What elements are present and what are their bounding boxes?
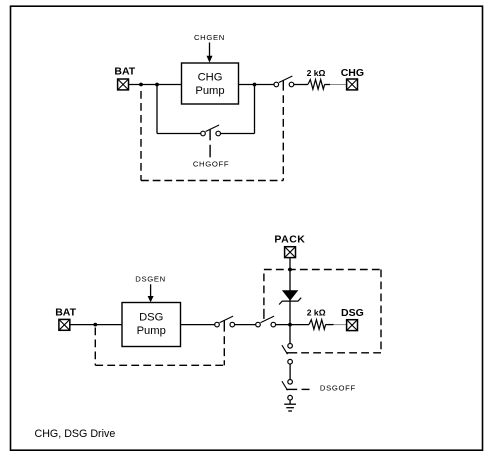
dashed IC boundary (DSG pump box) bottom edge xyxy=(95,364,224,366)
net DSGOFF label xyxy=(320,384,356,393)
dashed IC boundary (DSG pump box) left edge xyxy=(94,328,96,366)
dashed IC boundary (top circuit) right edge xyxy=(282,95,284,180)
switch S3 (DSG pump output) xyxy=(215,316,235,332)
wire DSG Pump output xyxy=(181,324,215,326)
svg-text:DSG: DSG xyxy=(139,311,163,323)
wire S1 to R1 xyxy=(294,84,308,86)
wire S5 to S6 xyxy=(289,364,291,380)
net CHGOFF label xyxy=(193,159,229,168)
svg-text:Pump: Pump xyxy=(137,325,166,337)
junction dot (BAT / dashed boundary) xyxy=(139,83,143,87)
svg-text:PACK: PACK xyxy=(274,234,305,246)
dashed IC boundary (top circuit) bottom edge xyxy=(141,180,283,182)
switch S1 (CHG output) xyxy=(274,76,294,91)
CHGOFF control dash xyxy=(209,145,211,158)
svg-text:CHG: CHG xyxy=(198,71,223,83)
wire R1 to CHG pin xyxy=(325,84,347,86)
svg-text:CHGOFF: CHGOFF xyxy=(193,159,229,168)
caption CHG, DSG Drive xyxy=(35,428,116,440)
CHGEN input arrow xyxy=(207,43,213,63)
net CHGEN label xyxy=(194,33,225,42)
pin BAT (bottom circuit) xyxy=(55,307,76,331)
wire BAT to DSG Pump xyxy=(70,324,122,326)
wire BAT to CHG Pump xyxy=(129,84,182,86)
CHG Pump block U1 xyxy=(182,63,239,104)
ground xyxy=(284,404,296,411)
wire CHGOFF loop left drop xyxy=(156,85,158,134)
svg-text:2 kΩ: 2 kΩ xyxy=(307,68,326,78)
svg-text:Pump: Pump xyxy=(195,85,224,97)
wire rail down to S5 xyxy=(289,325,291,344)
dashed IC boundary (PACK box) top edge xyxy=(264,269,381,271)
DSG Pump block U2 xyxy=(122,303,181,347)
DSGOFF control dashes xyxy=(302,388,310,390)
svg-text:CHG, DSG Drive: CHG, DSG Drive xyxy=(35,428,116,440)
switch S5 (DSGOFF upper) xyxy=(282,344,297,365)
wire CHGOFF loop right rise xyxy=(254,85,256,134)
svg-text:CHG: CHG xyxy=(341,67,364,79)
pin CHG xyxy=(341,67,364,90)
wire CHGOFF loop bottom left xyxy=(157,133,201,135)
switch S2 (CHGOFF) xyxy=(201,125,221,140)
dashed IC boundary (top circuit) left edge xyxy=(140,91,142,181)
pin DSG xyxy=(341,307,364,331)
svg-text:BAT: BAT xyxy=(55,307,76,319)
wire S4 to R2 xyxy=(276,324,309,326)
svg-text:BAT: BAT xyxy=(114,66,135,78)
resistor R2 value 2 kOhm xyxy=(307,308,326,330)
wire PACK down to DSG rail xyxy=(289,258,291,325)
wire CHGOFF loop bottom right xyxy=(221,133,255,135)
svg-text:CHGEN: CHGEN xyxy=(194,33,225,42)
junction dot (PACK / dashed boundary) xyxy=(288,268,292,272)
wire S3 to S4 xyxy=(235,324,256,326)
wire CHG Pump output xyxy=(239,84,275,86)
dashed IC boundary (PACK box) right edge xyxy=(380,270,382,353)
svg-text:DSG: DSG xyxy=(341,307,364,319)
junction dot (CHGOFF loop tap) xyxy=(155,83,159,87)
switch S6 (DSGOFF lower) xyxy=(282,380,297,401)
zener diode D1 xyxy=(279,290,301,304)
net DSGEN label xyxy=(135,274,166,283)
pin PACK xyxy=(274,234,305,258)
svg-text:DSGOFF: DSGOFF xyxy=(320,384,356,393)
resistor R1 value 2 kOhm xyxy=(307,68,326,89)
switch S4 (PACK side) xyxy=(256,309,276,327)
DSGEN input arrow xyxy=(148,284,154,302)
dashed IC boundary (DSG pump box) right edge xyxy=(223,336,225,365)
pin BAT (top circuit) xyxy=(114,66,135,90)
wire R2 to DSG pin xyxy=(326,324,347,326)
dashed IC boundary (PACK box) left edge xyxy=(263,270,265,306)
svg-text:DSGEN: DSGEN xyxy=(135,274,166,283)
junction dot (DSG rail) xyxy=(288,323,292,327)
junction dot (pump output / loop return) xyxy=(253,83,257,87)
dashed IC boundary (PACK box) bottom edge xyxy=(301,352,381,354)
wire S6 to ground xyxy=(289,400,291,404)
junction dot (BAT / dashed boundary, bottom) xyxy=(93,323,97,327)
svg-text:2 kΩ: 2 kΩ xyxy=(307,308,326,318)
